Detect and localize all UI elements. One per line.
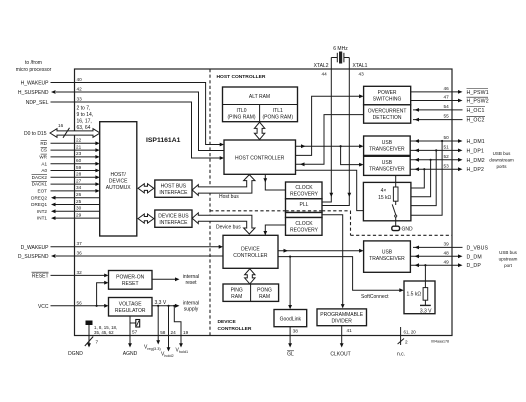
svg-text:CONTROLLER: CONTROLLER [233, 253, 268, 259]
wire D_DP pin 49 [410, 259, 481, 269]
svg-text:DETECTION: DETECTION [373, 115, 402, 121]
svg-text:DACK2: DACK2 [32, 175, 48, 180]
svg-text:51: 51 [444, 145, 450, 150]
dashed section divider horizontal (host/device) [210, 210, 351, 212]
wire D_DP to 1.5k pull-up [424, 264, 426, 281]
svg-text:DEVICE: DEVICE [241, 247, 260, 253]
svg-text:RESET: RESET [122, 281, 139, 287]
svg-text:REGULATOR: REGULATOR [115, 308, 146, 314]
svg-text:HOST/: HOST/ [111, 172, 127, 178]
svg-text:38: 38 [293, 329, 299, 334]
double arrow DEVICE CONTROLLER-PING/PONG RAM [245, 269, 255, 284]
wire D_VBUS pin 39 [413, 242, 489, 252]
svg-text:47: 47 [444, 95, 450, 100]
block USB TRANSCEIVER (downstream 1) [364, 136, 411, 155]
wire H_DP1 pin 51 [410, 145, 484, 155]
svg-text:57: 57 [132, 330, 138, 335]
svg-text:PING: PING [231, 287, 243, 293]
svg-text:23: 23 [76, 151, 82, 156]
svg-text:24: 24 [171, 330, 177, 335]
wire PLL to PROGRAMMABLE DIVIDER [322, 215, 345, 309]
svg-text:DREQ1: DREQ1 [31, 202, 47, 207]
svg-text:6 MHz: 6 MHz [333, 46, 348, 52]
double arrow ALT RAM-HOST CONTROLLER [254, 122, 264, 139]
svg-text:TRANSCEIVER: TRANSCEIVER [369, 167, 405, 173]
svg-text:26: 26 [76, 192, 82, 197]
wire RD pin 22 [40, 138, 99, 146]
block DEVICE CONTROLLER [223, 235, 278, 268]
svg-text:RD: RD [40, 141, 47, 146]
svg-text:HOST BUS: HOST BUS [161, 183, 187, 189]
wire RESET pin 32 [32, 270, 109, 279]
dashed section divider horizontal right [351, 234, 453, 236]
svg-text:ports: ports [496, 164, 507, 169]
block USB TRANSCEIVER (upstream) [364, 241, 411, 272]
svg-text:(PONG RAM): (PONG RAM) [263, 114, 294, 120]
svg-text:16, 17,: 16, 17, [77, 119, 92, 125]
svg-text:SWITCHING: SWITCHING [373, 97, 402, 103]
svg-text:63, 64: 63, 64 [77, 125, 91, 131]
svg-text:41: 41 [347, 328, 353, 333]
svg-text:39: 39 [444, 242, 450, 247]
svg-text:A1: A1 [41, 161, 47, 166]
fat arrow Host bus [192, 175, 255, 200]
wire DACK2 pin 28 [32, 172, 100, 180]
svg-text:58: 58 [160, 330, 166, 335]
svg-text:30: 30 [76, 206, 82, 211]
svg-text:28: 28 [76, 172, 82, 177]
svg-text:D_VBUS: D_VBUS [467, 245, 489, 251]
svg-text:H_OC2: H_OC2 [467, 118, 485, 124]
svg-text:37: 37 [77, 241, 83, 246]
section label DEVICE CONTROLLER [218, 319, 252, 332]
svg-text:D_DP: D_DP [467, 263, 482, 269]
svg-text:27: 27 [76, 178, 82, 183]
svg-text:43: 43 [359, 72, 365, 77]
wire NDP_SEL pin 33 [26, 96, 224, 160]
svg-text:VOLTAGE: VOLTAGE [119, 301, 143, 307]
block CLOCK RECOVERY (host) [286, 182, 323, 199]
wire VCC branch to power-on reset [96, 281, 109, 307]
svg-text:AGND: AGND [123, 351, 138, 357]
svg-text:25: 25 [76, 199, 82, 204]
svg-text:59: 59 [76, 165, 82, 170]
svg-text:55: 55 [444, 114, 450, 119]
ground GND symbol [392, 226, 413, 233]
svg-text:WR: WR [39, 155, 47, 160]
svg-text:hold1: hold1 [179, 350, 188, 354]
fat arrow Device bus [192, 213, 255, 234]
svg-text:H_DM2: H_DM2 [467, 158, 485, 164]
svg-text:RESET: RESET [32, 273, 49, 279]
block VOLTAGE REGULATOR [109, 298, 153, 317]
svg-text:INTERFACE: INTERFACE [159, 220, 188, 226]
svg-text:52: 52 [444, 154, 450, 159]
svg-text:RAM: RAM [259, 294, 270, 300]
svg-text:TRANSCEIVER: TRANSCEIVER [369, 147, 405, 153]
svg-text:H_DP1: H_DP1 [467, 148, 484, 154]
svg-text:Device bus: Device bus [216, 224, 241, 230]
double arrow AUTOMUX-DEVICE BUS INTERFACE [138, 214, 154, 223]
svg-text:40: 40 [77, 77, 83, 82]
block HOST/DEVICE AUTOMUX [100, 122, 137, 236]
dashed divider through PLL [286, 210, 323, 212]
svg-text:H_DP2: H_DP2 [467, 167, 484, 173]
svg-text:ISP1161A1: ISP1161A1 [146, 137, 181, 144]
svg-text:53: 53 [444, 163, 450, 168]
svg-text:H_WAKEUP: H_WAKEUP [21, 81, 50, 87]
wire internal reset output [152, 274, 199, 286]
svg-text:VCC: VCC [38, 304, 49, 310]
svg-text:42: 42 [77, 87, 83, 92]
svg-text:DEVICE: DEVICE [218, 319, 237, 325]
svg-text:HOST CONTROLLER: HOST CONTROLLER [235, 156, 285, 162]
wire H_PSW1 pin 46 [411, 86, 489, 96]
svg-text:supply: supply [184, 307, 199, 313]
svg-text:CLOCK: CLOCK [295, 185, 313, 191]
wire VCC pin 56 [38, 300, 109, 310]
block HOST CONTROLLER [224, 140, 296, 174]
svg-text:NDP_SEL: NDP_SEL [26, 100, 49, 106]
svg-text:19: 19 [183, 330, 189, 335]
svg-text:H_SUSPEND: H_SUSPEND [18, 90, 49, 96]
wire HOST CONTROLLER to POWER SWITCHING [296, 96, 361, 155]
svg-text:POWER-ON: POWER-ON [116, 274, 144, 280]
wire INT1 pin 29 [37, 212, 100, 220]
svg-text:DGND: DGND [68, 351, 83, 357]
svg-text:44: 44 [322, 72, 328, 77]
wire H_DP2 pin 53 [410, 163, 484, 173]
wire HOST CONTROLLER to pull-down switch [296, 170, 389, 210]
svg-text:INT1: INT1 [37, 216, 47, 221]
svg-text:34: 34 [76, 185, 82, 190]
wire DEVICE CONTROLLER SoftConnect / GoodLink net [278, 256, 404, 310]
block 4x 15 kOhm pull-down [363, 175, 411, 226]
svg-text:32: 32 [77, 270, 83, 275]
svg-text:USB: USB [382, 140, 393, 146]
svg-text:49: 49 [444, 259, 450, 264]
block HOST BUS INTERFACE [155, 180, 192, 197]
svg-text:15 kΩ: 15 kΩ [378, 195, 391, 201]
svg-text:ALT RAM: ALT RAM [249, 94, 270, 100]
svg-text:GoodLink: GoodLink [280, 317, 302, 323]
chip outer boundary [75, 69, 453, 336]
svg-text:port: port [504, 263, 513, 268]
wire CLOCK RECOVERY (device) to DEVICE CONTROLLER [263, 225, 285, 235]
svg-text:33: 33 [77, 96, 83, 101]
block CLOCK RECOVERY (device) [286, 218, 323, 236]
svg-text:54: 54 [444, 104, 450, 109]
wire H_WAKEUP pin 40 [21, 77, 224, 146]
svg-text:INT2: INT2 [37, 209, 47, 214]
svg-text:22: 22 [76, 138, 82, 143]
svg-text:CONTROLLER: CONTROLLER [218, 326, 252, 332]
svg-text:DREQ2: DREQ2 [31, 195, 47, 200]
svg-text:CLOCK: CLOCK [295, 221, 313, 227]
wire Vreg(3.3) pin 58 [144, 305, 166, 351]
svg-text:D_DM: D_DM [467, 254, 482, 260]
wire CLKOUT output pin 41 [330, 326, 352, 358]
svg-text:DACK1: DACK1 [32, 182, 48, 187]
svg-text:D0 to D15: D0 to D15 [24, 131, 47, 137]
svg-text:9 to 14,: 9 to 14, [77, 112, 94, 118]
svg-text:n.c.: n.c. [397, 352, 405, 358]
block USB TRANSCEIVER (downstream 2) [364, 156, 411, 175]
svg-text:60: 60 [76, 158, 82, 163]
svg-text:INTERFACE: INTERFACE [159, 190, 188, 196]
svg-text:USB: USB [382, 160, 393, 166]
svg-text:EOT: EOT [38, 189, 48, 194]
svg-text:internal: internal [183, 274, 199, 280]
svg-text:TRANSCEIVER: TRANSCEIVER [369, 256, 405, 262]
wire 3.3V internal supply output [152, 300, 199, 312]
wire HOST CONTROLLER to CLOCK RECOVERY [263, 174, 285, 190]
wire INT2 pin 30 [37, 206, 100, 214]
svg-text:H_DM1: H_DM1 [467, 139, 485, 145]
wire D_SUSPEND pin 36 [18, 250, 223, 260]
svg-text:GND: GND [402, 227, 414, 233]
svg-text:48: 48 [444, 251, 450, 256]
svg-text:reg(3.3): reg(3.3) [147, 347, 161, 351]
svg-text:D_SUSPEND: D_SUSPEND [18, 254, 49, 260]
svg-text:46: 46 [444, 86, 450, 91]
pins n.c. 61, 20 [397, 327, 416, 358]
wire Vhold1 pin 19 [173, 305, 188, 354]
block DEVICE BUS INTERFACE [155, 210, 192, 227]
svg-text:RECOVERY: RECOVERY [290, 192, 319, 198]
svg-text:micro processor: micro processor [16, 67, 52, 73]
wire OVERCURRENT DETECTION to HOST CONTROLLER [296, 115, 364, 165]
svg-text:35, 45, 62: 35, 45, 62 [94, 330, 114, 335]
wire H_PSW2 pin 47 [411, 95, 489, 105]
svg-text:56: 56 [77, 300, 83, 305]
svg-text:internal: internal [183, 300, 199, 306]
wire CS pin 21 [41, 144, 100, 152]
ground tap DGND pins 1,8,15,18,35,45,62 [68, 321, 117, 358]
label to/from microprocessor [16, 60, 52, 73]
svg-text:A0: A0 [41, 168, 47, 173]
pin list for data bus [77, 106, 94, 132]
svg-text:H_PSW2: H_PSW2 [467, 99, 489, 105]
svg-text:DIVIDER: DIVIDER [332, 319, 353, 325]
block ALT RAM / ITL0 / ITL1 [223, 87, 298, 122]
svg-text:3.3 V: 3.3 V [155, 300, 167, 306]
svg-text:50: 50 [444, 135, 450, 140]
svg-text:XTAL2: XTAL2 [314, 63, 329, 69]
svg-text:61, 20: 61, 20 [404, 330, 417, 335]
wire DREQ2 pin 26 [31, 192, 100, 200]
svg-text:POWER: POWER [378, 90, 397, 96]
wire XTAL2 pin 44 [314, 58, 334, 203]
svg-text:downstream: downstream [489, 158, 514, 163]
svg-text:Host bus: Host bus [219, 194, 239, 200]
block PING RAM / PONG RAM [223, 284, 279, 301]
wire H_OC1 pin 54 [413, 104, 485, 114]
svg-text:PLL: PLL [300, 202, 309, 208]
svg-text:RAM: RAM [231, 294, 242, 300]
svg-text:USB bus: USB bus [499, 250, 518, 255]
svg-text:H_PSW1: H_PSW1 [467, 90, 489, 96]
block POWER SWITCHING [364, 86, 411, 105]
label USB bus downstream ports [489, 151, 514, 169]
dashed section divider jog vertical [350, 211, 352, 236]
svg-text:D_WAKEUP: D_WAKEUP [21, 245, 50, 251]
svg-text:7: 7 [96, 340, 99, 345]
svg-text:OVERCURRENT: OVERCURRENT [368, 108, 407, 114]
block 1.5 kOhm pull-up [404, 281, 435, 315]
double arrow AUTOMUX-HOST BUS INTERFACE [138, 184, 154, 193]
svg-text:ITL1: ITL1 [273, 108, 283, 114]
svg-text:3.3 V: 3.3 V [420, 309, 432, 315]
wire D_WAKEUP pin 37 [21, 241, 223, 251]
svg-text:USB bus: USB bus [493, 151, 512, 156]
block PROGRAMMABLE DIVIDER [317, 309, 367, 326]
wire GL output pin 38 [287, 327, 298, 358]
svg-text:16: 16 [58, 123, 64, 128]
svg-text:21: 21 [76, 144, 82, 149]
svg-text:PONG: PONG [257, 287, 272, 293]
svg-text:2: 2 [405, 340, 408, 345]
block GoodLink [274, 310, 307, 327]
pull-down stubs to data lines [411, 140, 443, 215]
block PLL [286, 199, 323, 218]
wire H_DM1 pin 50 [410, 135, 485, 145]
wire HOST CONTROLLER to USB transceivers [296, 144, 364, 166]
wire AGND pin 57 with bead [123, 316, 140, 357]
wire A0 pin 59 [41, 165, 99, 173]
svg-text:(PING RAM): (PING RAM) [227, 114, 255, 120]
svg-text:HOST CONTROLLER: HOST CONTROLLER [217, 74, 266, 80]
svg-text:H_OC1: H_OC1 [467, 108, 485, 114]
svg-text:2 to 7,: 2 to 7, [77, 106, 91, 112]
svg-text:36: 36 [77, 250, 83, 255]
svg-text:DEVICE BUS: DEVICE BUS [158, 213, 189, 219]
svg-text:DEVICE: DEVICE [109, 179, 128, 185]
crystal 6 MHz [331, 46, 349, 64]
svg-text:4×: 4× [381, 188, 387, 194]
wire H_SUSPEND pin 42 [18, 87, 224, 151]
svg-text:XTAL1: XTAL1 [353, 63, 368, 69]
svg-text:to /from: to /from [25, 60, 42, 66]
svg-text:USB: USB [382, 250, 393, 256]
svg-text:PROGRAMMABLE: PROGRAMMABLE [320, 312, 363, 318]
svg-text:upstream: upstream [499, 256, 518, 261]
svg-text:SoftConnect: SoftConnect [361, 294, 389, 300]
wire H_OC2 pin 55 [413, 114, 485, 124]
bus D0 to D15 [24, 123, 100, 138]
svg-text:hold2: hold2 [164, 354, 173, 358]
wire EOT pin 34 [38, 185, 100, 193]
svg-text:GL: GL [287, 352, 294, 358]
wire WR pin 23 [39, 151, 99, 159]
wire DREQ1 pin 25 [31, 199, 100, 207]
wire XTAL1 pin 43 [322, 58, 368, 206]
svg-text:CLKOUT: CLKOUT [330, 352, 350, 358]
svg-text:ITL0: ITL0 [236, 108, 246, 114]
wire DACK1 pin 27 [32, 178, 100, 186]
wire H_DM2 pin 52 [410, 154, 485, 164]
svg-text:AUTOMUX: AUTOMUX [106, 185, 132, 191]
wire D_DM pin 48 [410, 251, 481, 261]
block OVERCURRENT DETECTION [364, 105, 411, 123]
svg-text:RECOVERY: RECOVERY [290, 228, 319, 234]
svg-text:29: 29 [76, 212, 82, 217]
label USB bus upstream port [499, 250, 518, 268]
dashed section divider vertical [209, 69, 211, 336]
svg-text:CS: CS [41, 148, 47, 153]
svg-text:reset: reset [185, 280, 197, 286]
wire Vhold2 pin 24 [161, 305, 176, 358]
svg-text:1.5 kΩ: 1.5 kΩ [407, 292, 422, 298]
wire A1 pin 60 [41, 158, 99, 166]
svg-text:004aaa178: 004aaa178 [431, 340, 449, 344]
wire DEVICE CONTROLLER to upstream transceiver [278, 249, 364, 253]
block POWER-ON RESET [109, 271, 153, 290]
